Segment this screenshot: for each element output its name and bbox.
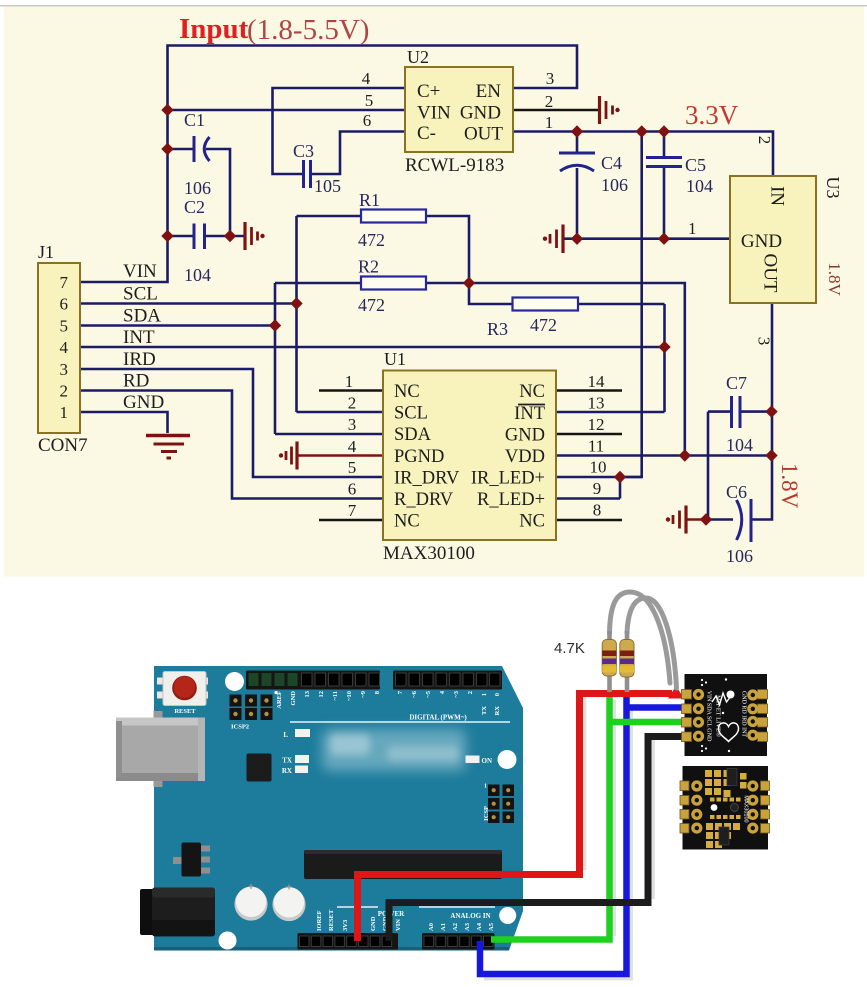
svg-text:RESET: RESET bbox=[328, 909, 335, 931]
svg-text:C7: C7 bbox=[726, 373, 747, 393]
svg-text:2: 2 bbox=[755, 136, 774, 145]
svg-text:DIGITAL (PWM~): DIGITAL (PWM~) bbox=[409, 714, 467, 722]
svg-text:NC: NC bbox=[394, 512, 420, 532]
svg-text:3V3: 3V3 bbox=[342, 919, 349, 931]
svg-text:472: 472 bbox=[358, 230, 385, 250]
svg-text:INT: INT bbox=[123, 327, 155, 348]
svg-text:C5: C5 bbox=[685, 155, 706, 175]
svg-text:11: 11 bbox=[588, 437, 604, 456]
svg-text:A0: A0 bbox=[428, 923, 435, 931]
svg-text:1: 1 bbox=[545, 113, 554, 132]
svg-text:R1: R1 bbox=[359, 190, 380, 210]
svg-text:GND: GND bbox=[123, 392, 164, 413]
svg-text:R2: R2 bbox=[358, 257, 379, 277]
svg-text:R_LED+: R_LED+ bbox=[477, 490, 545, 510]
svg-text:VDD: VDD bbox=[505, 447, 545, 467]
svg-text:U3: U3 bbox=[823, 177, 843, 199]
svg-text:U2: U2 bbox=[407, 47, 429, 67]
svg-text:1: 1 bbox=[60, 403, 69, 422]
svg-text:472: 472 bbox=[358, 295, 385, 315]
svg-text:AREF: AREF bbox=[276, 691, 283, 709]
svg-text:1.8V: 1.8V bbox=[825, 262, 844, 296]
svg-text:1: 1 bbox=[481, 693, 488, 696]
svg-text:C2: C2 bbox=[184, 197, 205, 217]
svg-text:MAX30100: MAX30100 bbox=[743, 795, 749, 822]
svg-text:104: 104 bbox=[726, 435, 753, 455]
svg-text:GND RD IRD INT: GND RD IRD INT bbox=[741, 691, 747, 737]
svg-text:5: 5 bbox=[348, 458, 357, 477]
svg-text:6: 6 bbox=[60, 295, 69, 314]
svg-text:C4: C4 bbox=[601, 153, 622, 173]
svg-text:104: 104 bbox=[686, 176, 713, 196]
svg-text:SCL: SCL bbox=[123, 284, 158, 305]
svg-text:TX: TX bbox=[481, 706, 488, 715]
svg-text:RX: RX bbox=[494, 706, 501, 716]
svg-text:~11: ~11 bbox=[332, 691, 339, 701]
svg-text:CON7: CON7 bbox=[38, 435, 88, 456]
svg-text:4.7K: 4.7K bbox=[554, 640, 585, 657]
svg-text:VIN SDA SCL GND: VIN SDA SCL GND bbox=[706, 691, 712, 742]
svg-text:A4: A4 bbox=[476, 922, 483, 931]
svg-text:2: 2 bbox=[545, 92, 554, 111]
svg-text:C-: C- bbox=[417, 123, 436, 144]
svg-text:R_DRV: R_DRV bbox=[394, 490, 454, 510]
svg-text:106: 106 bbox=[601, 175, 628, 195]
svg-text:GND: GND bbox=[460, 103, 501, 124]
svg-text:NC: NC bbox=[519, 382, 545, 402]
svg-text:7: 7 bbox=[348, 501, 357, 520]
svg-text:13: 13 bbox=[304, 690, 311, 697]
svg-text:R3: R3 bbox=[487, 319, 508, 339]
svg-text:4: 4 bbox=[348, 437, 357, 456]
svg-text:SDA: SDA bbox=[123, 306, 161, 327]
svg-text:6: 6 bbox=[363, 111, 372, 130]
svg-text:4: 4 bbox=[362, 69, 371, 88]
svg-text:10: 10 bbox=[590, 458, 607, 477]
svg-text:3.3V: 3.3V bbox=[685, 100, 739, 130]
svg-text:~6: ~6 bbox=[411, 690, 418, 697]
svg-text:GND: GND bbox=[741, 231, 782, 252]
svg-text:ON: ON bbox=[482, 757, 493, 765]
svg-text:RCWL-9183: RCWL-9183 bbox=[405, 155, 504, 176]
svg-text:C3: C3 bbox=[293, 141, 314, 161]
svg-text:VIN: VIN bbox=[395, 919, 402, 931]
svg-text:ICSP2: ICSP2 bbox=[231, 724, 249, 731]
svg-text:12: 12 bbox=[588, 415, 605, 434]
svg-text:OUT: OUT bbox=[464, 124, 503, 145]
svg-text:SCL: SCL bbox=[394, 404, 428, 424]
svg-text:GND: GND bbox=[505, 426, 545, 446]
svg-text:IR_DRV: IR_DRV bbox=[394, 469, 460, 489]
svg-text:L: L bbox=[283, 731, 288, 739]
svg-text:A5: A5 bbox=[488, 922, 495, 931]
svg-text:~3: ~3 bbox=[453, 690, 460, 697]
svg-text:NC: NC bbox=[394, 382, 420, 402]
svg-text:13: 13 bbox=[588, 394, 605, 413]
svg-text:9: 9 bbox=[593, 479, 602, 498]
svg-text:ANALOG IN: ANALOG IN bbox=[450, 912, 490, 920]
svg-text:C1: C1 bbox=[184, 110, 205, 130]
svg-text:MAX30100: MAX30100 bbox=[383, 543, 475, 564]
svg-text:1: 1 bbox=[688, 219, 697, 238]
svg-text:GND: GND bbox=[370, 916, 377, 931]
svg-text:7: 7 bbox=[60, 273, 69, 292]
svg-text:472: 472 bbox=[530, 315, 557, 335]
svg-text:OUT: OUT bbox=[760, 253, 781, 292]
svg-text:12: 12 bbox=[318, 691, 325, 698]
svg-text:A3: A3 bbox=[464, 922, 471, 931]
svg-text:104: 104 bbox=[184, 265, 211, 285]
svg-text:SDA: SDA bbox=[394, 425, 432, 445]
svg-text:VIN: VIN bbox=[123, 261, 157, 282]
svg-text:2: 2 bbox=[348, 394, 357, 413]
svg-text:IOREF: IOREF bbox=[316, 910, 323, 931]
svg-text:6: 6 bbox=[348, 480, 357, 499]
svg-text:U1: U1 bbox=[384, 349, 406, 369]
svg-text:Input: Input bbox=[179, 13, 249, 45]
svg-text:105: 105 bbox=[314, 176, 341, 196]
svg-text:IR_LED+: IR_LED+ bbox=[471, 469, 545, 489]
svg-text:106: 106 bbox=[726, 546, 753, 566]
svg-text:INT: INT bbox=[514, 404, 545, 424]
svg-text:RESET: RESET bbox=[174, 708, 196, 715]
svg-text:5: 5 bbox=[60, 317, 69, 336]
svg-text:IRD: IRD bbox=[123, 349, 156, 370]
svg-text:VIN: VIN bbox=[417, 103, 451, 124]
svg-text:PGND: PGND bbox=[394, 447, 444, 467]
svg-text:J1: J1 bbox=[38, 242, 54, 262]
svg-text:ICSP: ICSP bbox=[483, 806, 490, 821]
svg-text:RX: RX bbox=[282, 767, 292, 775]
svg-text:C6: C6 bbox=[726, 482, 747, 502]
svg-text:2: 2 bbox=[467, 691, 474, 694]
svg-text:3: 3 bbox=[348, 415, 357, 434]
svg-text:~9: ~9 bbox=[360, 690, 367, 697]
svg-text:RD: RD bbox=[123, 371, 149, 392]
svg-text:~5: ~5 bbox=[425, 690, 432, 697]
svg-text:3: 3 bbox=[546, 69, 555, 88]
svg-text:3: 3 bbox=[755, 337, 774, 346]
svg-text:(1.8-5.5V): (1.8-5.5V) bbox=[247, 14, 369, 46]
svg-text:TX: TX bbox=[282, 757, 292, 765]
svg-text:~10: ~10 bbox=[346, 691, 353, 701]
svg-text:4: 4 bbox=[60, 338, 69, 357]
svg-text:1: 1 bbox=[484, 784, 487, 790]
svg-text:IN: IN bbox=[767, 186, 788, 206]
svg-text:3: 3 bbox=[60, 360, 69, 379]
svg-text:C+: C+ bbox=[417, 81, 440, 102]
svg-text:2: 2 bbox=[60, 382, 69, 401]
svg-text:5: 5 bbox=[365, 91, 374, 110]
svg-text:8: 8 bbox=[593, 501, 602, 520]
svg-text:1.8V: 1.8V bbox=[777, 463, 802, 509]
svg-text:EN: EN bbox=[476, 81, 502, 102]
svg-text:A2: A2 bbox=[452, 923, 459, 931]
svg-text:1: 1 bbox=[345, 372, 354, 391]
svg-text:0: 0 bbox=[494, 693, 501, 696]
svg-text:GND: GND bbox=[290, 691, 297, 706]
svg-text:NC: NC bbox=[519, 512, 545, 532]
svg-text:A1: A1 bbox=[440, 923, 447, 931]
svg-text:14: 14 bbox=[588, 372, 606, 391]
svg-text:106: 106 bbox=[184, 178, 211, 198]
